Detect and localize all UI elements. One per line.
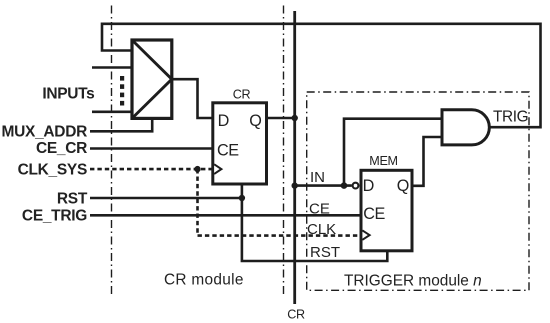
junction RST: [239, 195, 245, 201]
flip-flop CR: [213, 88, 267, 184]
wire CE_TRIG: [90, 214, 361, 217]
flip-flop MEM: [361, 154, 412, 251]
module boundary dash-dot line middle: [283, 6, 285, 297]
svg-text:IN: IN: [310, 169, 325, 186]
wire MEM Q to AND bottom input: [412, 137, 442, 186]
junction CLK_SYS: [194, 166, 200, 172]
wire IN from bus to MEM D: [295, 184, 352, 187]
wire RST: [90, 197, 242, 200]
svg-text:RST: RST: [57, 190, 88, 207]
CR bus vertical: [293, 11, 296, 304]
svg-text:CE_TRIG: CE_TRIG: [22, 208, 87, 225]
svg-text:D: D: [363, 177, 374, 195]
INPUTs ellipsis dots: [120, 76, 124, 106]
junction Q-bus: [292, 115, 298, 121]
clock triangle CR: [214, 164, 221, 174]
svg-text:Q: Q: [249, 112, 261, 130]
wire input bottom: [92, 111, 133, 114]
svg-text:CR module: CR module: [164, 272, 244, 289]
wire MUX_ADDR select: [90, 119, 152, 132]
svg-text:CE: CE: [363, 205, 385, 223]
wire CR Q output to bus: [267, 117, 295, 120]
junction bus-IN: [292, 182, 298, 188]
svg-text:INPUTs: INPUTs: [42, 86, 94, 103]
wire input top: [92, 66, 133, 69]
wire CR reset vertical and to MEM reset: [242, 184, 387, 262]
svg-text:Q: Q: [397, 177, 409, 195]
svg-text:TRIGGER module n: TRIGGER module n: [344, 272, 482, 289]
AND gate: [442, 110, 489, 145]
svg-text:D: D: [218, 112, 229, 130]
wire IN to AND top input: [344, 119, 442, 186]
multiplexer: [132, 40, 172, 118]
svg-text:MEM: MEM: [369, 154, 397, 168]
TRIGGER module dashed box: [307, 92, 529, 290]
svg-text:CR: CR: [233, 88, 251, 102]
inverter bubble at MEM D: [353, 183, 359, 189]
wire CLK_SYS dashed horizontal: [90, 168, 213, 171]
wire CE_CR: [90, 147, 213, 150]
svg-text:MUX_ADDR: MUX_ADDR: [2, 124, 88, 141]
wire mux output to CR D input: [172, 79, 213, 118]
svg-text:CE: CE: [217, 142, 239, 160]
svg-text:CLK_SYS: CLK_SYS: [18, 162, 87, 179]
svg-text:TRIG: TRIG: [493, 109, 528, 126]
svg-text:RST: RST: [310, 244, 340, 261]
clock triangle MEM: [362, 230, 369, 239]
wire CLK dashed vertical branch: [196, 169, 199, 236]
wire CLK dashed horizontal to MEM: [198, 234, 361, 237]
svg-text:CLK: CLK: [307, 221, 336, 238]
svg-text:CR: CR: [287, 308, 305, 322]
junction IN-AND branch: [341, 182, 348, 189]
svg-text:CE_CR: CE_CR: [36, 140, 87, 157]
wire TRIG feedback loop (AND output to mux input): [102, 24, 541, 127]
svg-text:CE: CE: [309, 201, 330, 218]
module boundary dash-dot line left: [111, 6, 113, 296]
